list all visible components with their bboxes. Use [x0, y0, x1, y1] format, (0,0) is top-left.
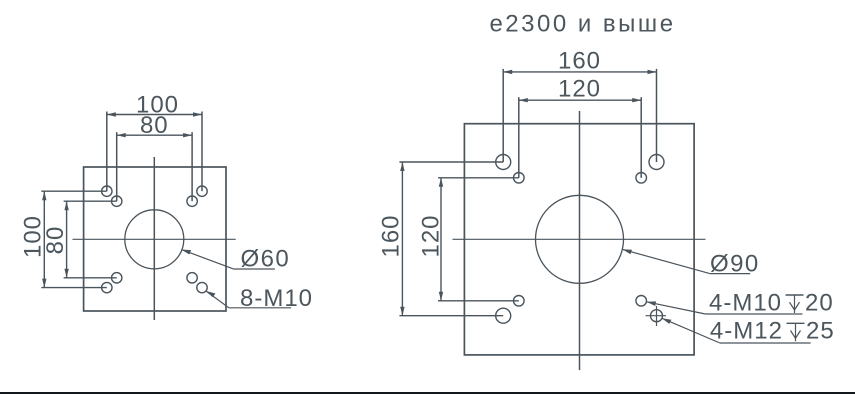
hole P2 inner top-left M10 [514, 173, 525, 184]
hole P2 inner top-right M10 [636, 173, 647, 184]
hole P2 outer top-left M12 [496, 155, 511, 170]
leader D60 [181, 246, 290, 273]
leader 4-M10 [646, 289, 833, 316]
hole P1 outer top-right [197, 186, 207, 196]
dimension 120 top P2 [519, 76, 641, 178]
hole P2 outer bottom-left M12 [496, 308, 511, 323]
svg-text:25: 25 [806, 318, 835, 345]
hole P2 outer bottom-right M12 with cross [646, 306, 667, 326]
dimension 120 left P2 [418, 178, 519, 301]
svg-text:Ø60: Ø60 [241, 246, 291, 273]
hole P1 outer bottom-left [102, 282, 112, 292]
dimension 80 left P1 [42, 201, 117, 278]
svg-text:80: 80 [42, 226, 69, 255]
plate P1 outline [84, 167, 226, 311]
depth symbol row2 [787, 322, 805, 324]
center line horizontal P2 [453, 238, 706, 240]
svg-text:4-M12: 4-M12 [710, 318, 783, 345]
hole P1 inner bottom-left [112, 273, 122, 283]
dimension 160 top P2 [503, 48, 656, 162]
svg-text:Ø90: Ø90 [710, 251, 760, 278]
svg-text:е2300 и выше: е2300 и выше [489, 11, 675, 38]
depth symbol row1 [786, 294, 804, 296]
leader 8-M10 [206, 285, 313, 312]
dimension 160 left P2 [378, 162, 504, 316]
hole P1 inner top-left [112, 196, 122, 206]
center line horizontal P1 [73, 238, 236, 240]
hole P2 outer top-right M12 [649, 155, 664, 170]
svg-text:160: 160 [378, 214, 405, 257]
dimension 80 top P1 [117, 112, 192, 201]
svg-text:120: 120 [558, 76, 601, 103]
leader D90 [622, 249, 759, 277]
dimension 100 top P1 [107, 92, 202, 192]
svg-text:4-M10: 4-M10 [709, 289, 782, 316]
circle D90 [536, 195, 624, 283]
svg-text:120: 120 [418, 214, 445, 257]
hole P2 inner bottom-left M10 [514, 296, 525, 307]
leader 4-M12 [662, 318, 835, 345]
circle D60 [125, 210, 184, 269]
svg-text:8-M10: 8-M10 [240, 285, 313, 312]
plate P2 outline [464, 124, 694, 355]
hole P1 inner bottom-right [187, 273, 197, 283]
hole P2 inner bottom-right M10 [636, 296, 647, 307]
hole P1 outer top-left [102, 186, 112, 196]
svg-text:160: 160 [558, 48, 601, 75]
center line vertical P2 [579, 111, 581, 370]
center line vertical P1 [153, 157, 155, 320]
bottom rule [0, 392, 855, 394]
hole P1 inner top-right [187, 196, 197, 206]
dimension 100 left P1 [20, 191, 107, 287]
svg-text:80: 80 [140, 112, 169, 139]
hole P1 outer bottom-right [197, 282, 207, 292]
svg-text:20: 20 [805, 289, 834, 316]
